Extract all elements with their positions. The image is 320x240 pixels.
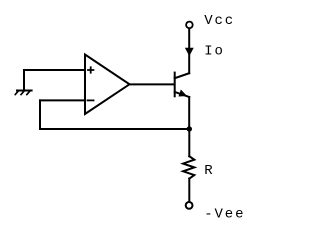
wire junction to resistor <box>188 129 190 156</box>
wire feedback loop <box>40 100 189 129</box>
svg-text:Vcc: Vcc <box>204 13 235 29</box>
terminal -Vee <box>186 202 193 209</box>
junction node <box>187 126 192 131</box>
wire emitter down to junction <box>188 97 190 129</box>
wire collector to Vcc terminal <box>188 29 190 73</box>
resistor R <box>183 156 194 178</box>
wire op-amp output to base <box>130 83 175 85</box>
wire resistor to -Vee terminal <box>188 179 190 202</box>
svg-text:R: R <box>204 163 214 179</box>
wire inverting input <box>40 99 85 101</box>
terminal Vcc <box>186 22 193 29</box>
svg-text:-Vee: -Vee <box>204 206 245 222</box>
op-amp U1 <box>85 55 130 115</box>
svg-text:Io: Io <box>204 43 225 59</box>
transistor Q1 <box>175 73 190 97</box>
ground <box>15 91 32 95</box>
wire noninverting input to ground <box>24 70 85 90</box>
current arrow Io <box>186 48 193 55</box>
